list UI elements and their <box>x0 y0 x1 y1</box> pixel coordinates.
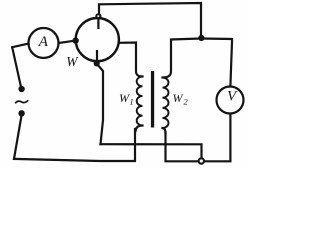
voltmeter V circle <box>217 87 244 114</box>
wire: node A to voltmeter top lead <box>201 39 232 87</box>
wire: W1 bottom curve out of coil <box>136 126 143 132</box>
wattmeter voltage coil stub top <box>97 19 99 30</box>
wire: W2 bottom curve out of coil <box>163 128 166 133</box>
wire: ammeter to wattmeter junction <box>59 41 75 43</box>
svg-text:V: V <box>227 89 238 105</box>
transformer winding W1 (primary coil) <box>137 77 143 126</box>
svg-text:W: W <box>173 91 184 105</box>
wire: left vertical down to source top terminal <box>12 47 21 87</box>
wattmeter W circle <box>76 18 119 61</box>
wire: left feed into ammeter <box>12 44 28 48</box>
svg-text:2: 2 <box>184 97 189 107</box>
svg-text:W: W <box>119 91 130 105</box>
wire: source bottom terminal down to bottom-left corner <box>14 115 22 159</box>
AC source tilde symbol <box>15 100 28 103</box>
AC source bottom terminal dot <box>18 110 24 116</box>
wattmeter bottom terminal dot <box>94 60 100 66</box>
svg-text:W: W <box>66 54 79 69</box>
wire: top bus from wattmeter voltage terminal to node A <box>99 3 201 36</box>
svg-text:1: 1 <box>130 97 134 107</box>
wire: node A branch to W2 top lead <box>163 39 202 78</box>
ammeter A circle <box>29 28 59 58</box>
svg-text:A: A <box>38 34 49 50</box>
junction dot at ammeter-wattmeter node <box>72 37 78 43</box>
wattmeter top terminal (open) <box>95 13 101 19</box>
wire: wattmeter right to W1 top lead <box>119 43 142 77</box>
transformer winding W2 (secondary coil) <box>163 78 169 128</box>
wire: bottom return to W1 lower lead <box>14 129 135 161</box>
wattmeter voltage coil stub bottom <box>96 50 98 62</box>
wire: wattmeter bottom net horizontal run <box>101 144 202 158</box>
wire: W2 bottom to bottom-right bus <box>166 115 231 162</box>
transformer core bar <box>151 71 154 128</box>
junction dot node A (top right) <box>198 35 204 41</box>
open junction circle on bottom bus <box>199 158 204 163</box>
wire: wattmeter voltage coil bottom lead <box>97 64 103 144</box>
AC source top terminal dot <box>18 86 24 92</box>
